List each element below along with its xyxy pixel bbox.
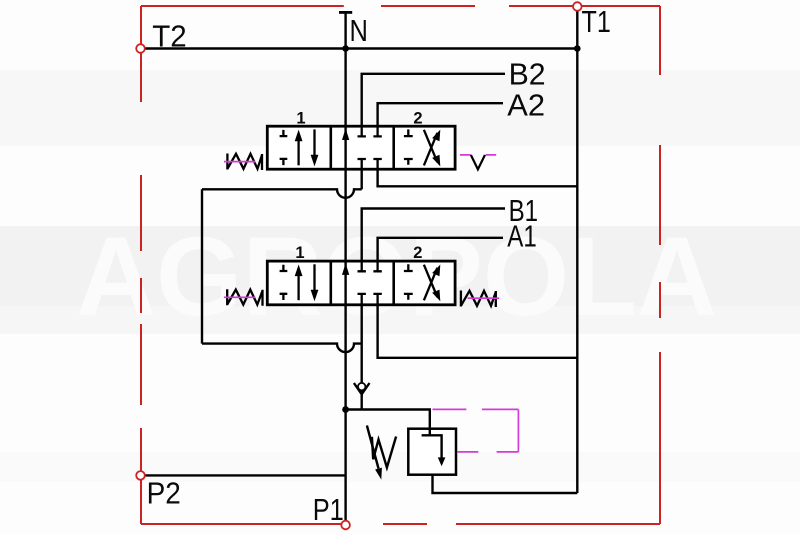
svg-text:A2: A2 <box>507 88 545 123</box>
svg-text:2: 2 <box>413 110 422 128</box>
svg-text:A1: A1 <box>507 219 537 254</box>
svg-text:2: 2 <box>413 244 422 262</box>
svg-text:P1: P1 <box>313 492 344 527</box>
svg-text:B2: B2 <box>509 57 546 92</box>
svg-text:T1: T1 <box>582 4 611 39</box>
svg-text:1: 1 <box>296 110 305 128</box>
svg-text:P2: P2 <box>147 475 181 510</box>
svg-text:T2: T2 <box>152 19 187 54</box>
svg-text:N: N <box>350 13 368 48</box>
svg-text:1: 1 <box>295 244 304 262</box>
